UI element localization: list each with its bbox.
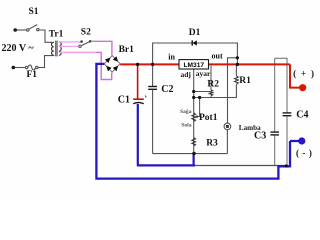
wire: secondary top tap (pink): [59, 41, 81, 43]
resistor R3: [192, 138, 196, 147]
node: output/lamp junction: [236, 56, 239, 59]
wire: secondary middle tap (pink): [59, 45, 79, 47]
transformer Tr1 core: [55, 41, 57, 57]
node: adj/R2 junction: [192, 90, 195, 93]
op-amp U1 regulator LM317 box: [179, 60, 209, 69]
wire: F1 bottom AC wire: [14, 67, 25, 69]
svg-text:Tr1: Tr1: [49, 29, 64, 39]
svg-text:( - ): ( - ): [296, 148, 313, 158]
svg-text:R3: R3: [206, 138, 218, 148]
svg-text:( + ): ( + ): [293, 68, 315, 78]
wire: LM317 adj pin line: [193, 69, 195, 154]
capacitor C3 branch: [274, 58, 276, 131]
svg-text:Pot1: Pot1: [199, 113, 218, 123]
svg-text:S1: S1: [29, 7, 39, 17]
bridge diode bottom-right: [113, 66, 118, 71]
bridge diode bottom-left: [106, 66, 111, 71]
svg-text:R1: R1: [239, 76, 251, 86]
svg-text:out: out: [212, 52, 223, 61]
transformer Tr1 primary winding: [52, 42, 54, 55]
svg-text:Sola: Sola: [181, 123, 191, 129]
wire: red drop to plus terminal: [290, 64, 300, 87]
terminal (+): [299, 84, 306, 91]
svg-text:LM317: LM317: [184, 62, 205, 69]
svg-text:D1: D1: [189, 28, 201, 38]
diode D1: [191, 40, 193, 45]
wire: main positive red line: [120, 63, 290, 65]
svg-text:Lamba: Lamba: [239, 124, 261, 132]
svg-text:C2: C2: [161, 84, 173, 95]
fuse F1: [25, 56, 53, 70]
svg-text:in: in: [168, 53, 175, 62]
capacitor C2: [148, 86, 157, 88]
node: adj/bottom-wire junction: [192, 152, 195, 155]
bridge diode top-right: [113, 56, 118, 61]
svg-text:Br1: Br1: [119, 45, 135, 55]
wire: lamp to bottom wire: [226, 130, 228, 154]
wire: pot wiper: [197, 98, 200, 117]
svg-text:F1: F1: [27, 70, 38, 80]
resistor R1 branch: [235, 64, 237, 75]
svg-text:ayar: ayar: [196, 69, 211, 78]
wire: C1 blue lead down to inner rail: [137, 104, 195, 165]
svg-text:S2: S2: [81, 28, 91, 38]
lamp Lamba symbol: [224, 123, 231, 130]
wire: middle box bottom wire: [153, 153, 228, 155]
wire: secondary bottom tap to bridge bottom (pink): [59, 52, 112, 79]
wire: S1 top AC wire: [16, 29, 27, 31]
svg-text:Sağa: Sağa: [180, 108, 192, 115]
node: left AC terminal bottom: [12, 66, 16, 70]
transformer Tr1 secondary winding: [59, 42, 61, 56]
switch S1: [27, 25, 54, 43]
capacitor C3: [270, 131, 279, 133]
wire: C2 branch vertical: [152, 64, 154, 86]
wire: S2 output to bridge top (pink): [91, 41, 112, 55]
svg-text:220 V ~: 220 V ~: [2, 43, 35, 54]
node: red/D1 junction: [236, 63, 239, 66]
capacitor C4: [283, 112, 292, 114]
wire: inner ground rail (thin): [195, 165, 287, 167]
wire: blue negative from bridge, outer rail: [95, 63, 298, 180]
bridge diode top-left: [105, 58, 110, 63]
node: rail/terminal junction: [285, 164, 288, 167]
svg-text:C1: C1: [118, 95, 130, 106]
node: adj/wiper junction: [198, 96, 201, 99]
node: left AC terminal top: [13, 28, 17, 32]
wire: blue drop from box bottom to inner rail: [193, 154, 195, 166]
switch S2: [79, 45, 81, 47]
terminal (-): [298, 137, 305, 144]
node: red/C1 junction: [136, 63, 139, 66]
wire: lamp branch jog from output node: [228, 58, 238, 123]
resistor R2 branch: [210, 65, 212, 89]
capacitor C1 red lead: [137, 64, 139, 98]
capacitor C1: [133, 98, 144, 100]
capacitor C4 branch: [275, 58, 287, 112]
svg-text:adj: adj: [181, 70, 192, 79]
svg-text:C4: C4: [296, 110, 308, 121]
wire: D1 bypass top wire: [153, 43, 238, 64]
node: adj/R1 junction: [192, 96, 195, 99]
node: red/C2-line junction: [151, 63, 154, 66]
svg-text:R2: R2: [207, 80, 219, 90]
bridge rectifier Br1 outline: [104, 56, 120, 73]
potentiometer Pot1: [192, 113, 196, 122]
